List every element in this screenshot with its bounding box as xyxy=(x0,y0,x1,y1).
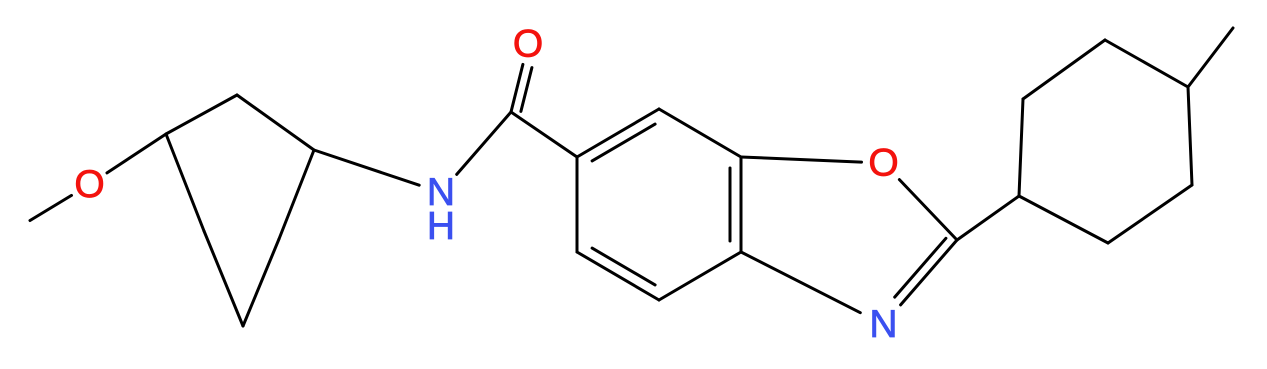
bond C7a-O (oxazole O) xyxy=(741,157,862,162)
svg-text:H: H xyxy=(427,205,455,248)
cyclohexane ring1 edge C5-C4 xyxy=(243,239,279,326)
bond C4'-CH3 (methyl) xyxy=(1188,28,1233,87)
bond C3-N (amide N-H) xyxy=(314,150,419,185)
benzene edge B5-B6 xyxy=(659,109,741,157)
bond N-C(=O) xyxy=(457,112,511,174)
svg-text:O: O xyxy=(513,23,543,66)
bond C=O main xyxy=(511,64,523,112)
cyclohexane ring1 edge C1-C6 xyxy=(166,134,204,231)
bond C=O second line xyxy=(521,68,532,112)
bond N=C2 main xyxy=(901,240,957,305)
benzene inner double line right (fusion) xyxy=(729,168,732,241)
benzene edge B4-B5 xyxy=(740,157,743,252)
cyclohexane ring3 edge C4'-C5' xyxy=(1188,87,1192,185)
cyclohexane ring1 edge C4-C3 xyxy=(279,150,314,239)
bond N=C2 second line xyxy=(895,238,946,297)
bond C(=O)-C5ar xyxy=(511,112,577,157)
cyclohexane ring3 edge C1'-C2' xyxy=(1019,99,1023,196)
benzene inner double line bottom-left xyxy=(592,248,655,285)
bond O1-CH3 (methoxy methyl) xyxy=(30,195,72,220)
benzene edge B6-B1 xyxy=(577,109,659,157)
bond O1-C1 (methoxy to ring C1) xyxy=(107,134,166,173)
cyclohexane ring3 edge C5'-C6' xyxy=(1108,185,1192,243)
benzene edge B2-B3 xyxy=(577,252,659,300)
cyclohexane ring1 edge C1-C2 xyxy=(166,95,237,134)
bond O-C2 (oxazole) xyxy=(899,180,957,240)
svg-text:O: O xyxy=(868,142,898,185)
bond C3a-N (oxazole N) xyxy=(741,252,860,313)
benzene edge B3-B4 xyxy=(659,252,741,300)
cyclohexane ring3 edge C6'-C1' xyxy=(1019,196,1108,243)
benzene edge B1-B2 xyxy=(576,157,579,252)
cyclohexane ring1 edge C6-C5 xyxy=(204,231,243,326)
svg-text:O: O xyxy=(74,163,104,206)
cyclohexane ring3 edge C2'-C3' xyxy=(1023,40,1105,99)
cyclohexane ring3 edge C3'-C4' xyxy=(1105,40,1188,87)
benzene inner double line top-left xyxy=(592,124,655,161)
cyclohexane ring1 edge C2-C3 xyxy=(237,95,314,150)
svg-text:N: N xyxy=(869,303,897,346)
bond C2-C1' (to cyclohexyl) xyxy=(957,196,1019,240)
